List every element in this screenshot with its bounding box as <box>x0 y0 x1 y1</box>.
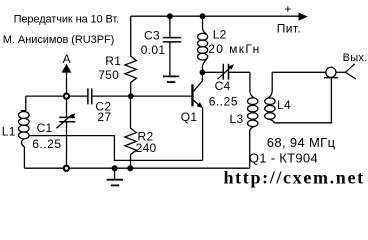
svg-text:750: 750 <box>98 68 119 82</box>
svg-text:L1: L1 <box>2 124 16 138</box>
node junction dot L2-rail <box>200 13 206 19</box>
svg-text:0.01: 0.01 <box>141 43 166 57</box>
node ring antenna tap <box>64 94 69 99</box>
inductor L4 <box>268 72 272 98</box>
svg-text:20 мкГн: 20 мкГн <box>208 42 260 56</box>
node junction dot ground tap <box>112 165 118 171</box>
arrowhead + supply <box>299 13 308 21</box>
wire L1 tap to ground/emitter <box>29 136 203 161</box>
wire collector to C4 <box>202 71 223 73</box>
svg-text:R1: R1 <box>105 54 121 68</box>
ground (C3) <box>163 75 179 77</box>
svg-text:Вых.: Вых. <box>343 52 368 64</box>
node junction dot base <box>128 93 134 99</box>
inductor L3 <box>250 72 254 98</box>
svg-text:Пит.: Пит. <box>277 22 301 36</box>
wire L4 bottom to connector shield <box>274 78 331 123</box>
wire top supply rail <box>131 15 299 17</box>
node junction dot collector <box>200 69 206 75</box>
svg-text:L2: L2 <box>213 27 227 41</box>
connector output jack <box>326 67 336 77</box>
node junction dot C3-rail <box>167 13 173 19</box>
svg-text:6..25: 6..25 <box>32 137 61 151</box>
wire output line <box>272 71 326 73</box>
svg-text:L4: L4 <box>277 98 291 112</box>
svg-text:А: А <box>63 52 71 66</box>
svg-text:+: + <box>284 2 291 16</box>
svg-text:C4: C4 <box>215 79 231 93</box>
resistor R1 <box>125 16 136 96</box>
svg-text:L3: L3 <box>230 112 244 126</box>
wire base <box>26 95 192 97</box>
transistor Q1 <box>191 84 193 106</box>
label 6..25 C1 <box>31 138 66 150</box>
capacitor C4 (variable) <box>223 64 228 80</box>
svg-text:Q1 - КТ904: Q1 - КТ904 <box>249 151 318 166</box>
svg-text:27: 27 <box>97 110 111 124</box>
svg-text:240: 240 <box>136 141 157 155</box>
wire emitter down <box>202 108 204 161</box>
capacitor C1 (variable) <box>66 99 68 117</box>
svg-text:http://cxem.net: http://cxem.net <box>224 168 365 188</box>
svg-text:C3: C3 <box>144 29 160 43</box>
resistor R2 <box>125 96 136 168</box>
antenna <box>62 64 72 73</box>
svg-text:М. Анисимов (RU3PF): М. Анисимов (RU3PF) <box>3 34 115 46</box>
wire bottom rail <box>24 167 249 169</box>
svg-text:6..25: 6..25 <box>209 95 238 109</box>
ground (main) <box>114 168 116 179</box>
inductor L2 <box>203 16 207 34</box>
svg-text:C1: C1 <box>37 121 53 135</box>
inductor L1 <box>21 96 26 111</box>
wire C4 to L3 <box>229 71 250 73</box>
node ring C1 bottom <box>64 166 69 171</box>
capacitor C2 <box>88 88 92 104</box>
capacitor C3 <box>169 16 171 37</box>
svg-text:Передатчик на 10 Вт.: Передатчик на 10 Вт. <box>14 13 120 25</box>
svg-text:68, 94 МГц: 68, 94 МГц <box>267 135 336 150</box>
node junction dot R2 bottom <box>127 165 133 171</box>
svg-text:Q1: Q1 <box>181 110 198 124</box>
